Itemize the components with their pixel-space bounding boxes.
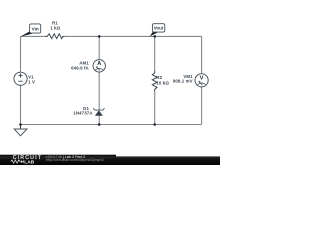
svg-text:909.1 mV: 909.1 mV [173,79,193,84]
svg-text:1N4737A: 1N4737A [73,110,93,115]
svg-text:1 kΩ: 1 kΩ [50,26,60,31]
svg-text:http://circuitlab.com/c8tpmd3q: http://circuitlab.com/c8tpmd3qmyn3 [46,158,104,162]
svg-text:V: V [200,75,204,81]
svg-text:LAB: LAB [24,159,34,165]
svg-text:10 kΩ: 10 kΩ [156,80,169,85]
svg-text:R2: R2 [156,75,162,80]
svg-text:1 V: 1 V [28,79,35,84]
svg-text:Vout: Vout [154,26,164,31]
svg-text:Vin: Vin [32,26,39,31]
svg-text:649.9 fA: 649.9 fA [71,65,89,70]
